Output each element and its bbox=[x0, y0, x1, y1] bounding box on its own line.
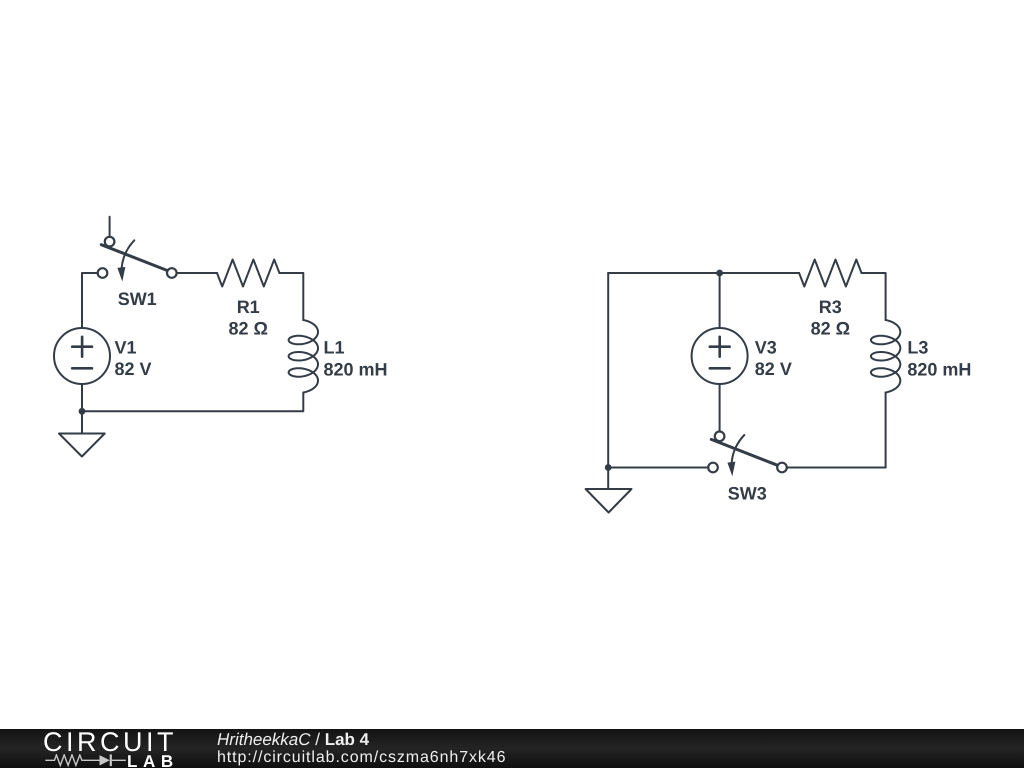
V1 plus sign bbox=[72, 337, 92, 357]
svg-text:R3: R3 bbox=[819, 297, 842, 317]
ground symbol (right circuit) bbox=[586, 489, 632, 513]
switch SW1 top terminal circle bbox=[105, 237, 115, 247]
switch SW1 top throw stub bbox=[109, 217, 111, 237]
switch SW3 motion arrow bbox=[727, 435, 744, 476]
wire: SW3 right terminal to bottom-right corner bbox=[787, 467, 886, 469]
V1 minus sign bbox=[72, 367, 92, 370]
svg-text:SW1: SW1 bbox=[118, 289, 157, 309]
junction dot: bottom-left ground node bbox=[605, 464, 612, 471]
footer title: HritheekkaC / Lab 4 bbox=[217, 730, 369, 750]
switch SW1 lever bbox=[101, 245, 167, 271]
svg-text:820 mH: 820 mH bbox=[907, 359, 971, 379]
wire: V1 top vertical + corner to SW1 left terminal bbox=[82, 273, 98, 328]
svg-text:R1: R1 bbox=[237, 297, 260, 317]
wire: R1 to top-right corner down to L1 bbox=[279, 273, 303, 320]
V3 plus sign bbox=[710, 337, 730, 357]
CircuitLab logo word CIRCUIT bbox=[43, 727, 177, 758]
wire: left rail of right circuit bbox=[607, 273, 609, 468]
svg-text:L1: L1 bbox=[324, 337, 345, 357]
switch SW1 left terminal circle bbox=[98, 268, 108, 278]
voltage source V1 circle bbox=[54, 328, 110, 384]
junction dot: V1 bottom node bbox=[79, 408, 86, 415]
wire: ground stub (right circuit) bbox=[607, 468, 609, 490]
resistor R1 bbox=[217, 260, 279, 287]
wire: bottom rail left segment to SW3 bbox=[608, 467, 708, 469]
wire: L1 bottom to corner and along bottom to V1 bbox=[82, 393, 303, 412]
voltage source V3 circle bbox=[692, 328, 748, 384]
svg-text:82 V: 82 V bbox=[115, 359, 152, 379]
switch SW1 motion arrow bbox=[117, 240, 134, 281]
svg-text:820 mH: 820 mH bbox=[324, 359, 388, 379]
switch SW3 left terminal circle bbox=[708, 463, 718, 473]
svg-text:82 Ω: 82 Ω bbox=[811, 319, 850, 339]
wire: L3 bottom to bottom-right corner bbox=[885, 393, 887, 468]
footer bar bbox=[0, 729, 1024, 768]
svg-text:82 V: 82 V bbox=[755, 359, 792, 379]
svg-text:L3: L3 bbox=[907, 337, 928, 357]
inductor L1 bbox=[289, 320, 318, 393]
wire: SW1 right terminal to R1 bbox=[177, 272, 217, 274]
ground symbol (left circuit) bbox=[59, 434, 105, 457]
switch SW3 lever bbox=[711, 439, 777, 465]
junction dot: top node at V3 bbox=[716, 270, 723, 277]
inductor L3 bbox=[871, 320, 900, 393]
switch SW3 right terminal circle bbox=[777, 463, 787, 473]
footer url bbox=[217, 749, 506, 767]
CircuitLab logo resistor-diode squiggle bbox=[44, 754, 128, 768]
resistor R3 bbox=[799, 260, 861, 287]
CircuitLab logo word LAB bbox=[127, 752, 179, 768]
wire: V3 top stub bbox=[719, 273, 721, 328]
switch SW1 right terminal circle bbox=[167, 268, 177, 278]
svg-text:V3: V3 bbox=[755, 337, 777, 357]
wire: V3 bottom to SW3 top terminal bbox=[719, 384, 721, 432]
svg-text:V1: V1 bbox=[115, 337, 137, 357]
wire: top rail of right circuit bbox=[608, 272, 799, 274]
V3 minus sign bbox=[710, 367, 730, 370]
svg-text:82 Ω: 82 Ω bbox=[228, 319, 267, 339]
switch SW3 top terminal circle bbox=[715, 432, 725, 442]
svg-text:SW3: SW3 bbox=[728, 484, 767, 504]
wire: R3 to top-right corner down to L3 bbox=[862, 273, 886, 320]
wire: V1 bottom to ground bbox=[81, 384, 83, 434]
